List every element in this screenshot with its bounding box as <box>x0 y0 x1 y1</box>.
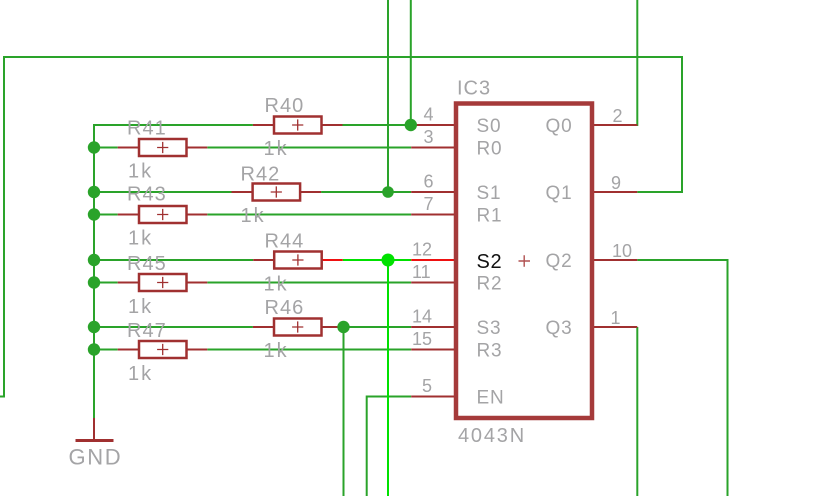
pin stub R2 pin 11 <box>411 282 456 284</box>
ground GND <box>69 418 123 470</box>
svg-text:9: 9 <box>611 173 621 193</box>
wire S2 net vertical down highlighted <box>387 260 389 496</box>
wire R0 row right <box>207 147 411 149</box>
svg-text:1k: 1k <box>128 296 153 318</box>
pin stub R3 pin 15 <box>411 349 456 351</box>
svg-text:1k: 1k <box>128 161 153 183</box>
svg-text:Q2: Q2 <box>546 251 573 272</box>
resistor R43 <box>118 184 208 250</box>
resistor R47 <box>118 320 208 385</box>
wire R3 row right <box>207 349 411 351</box>
wire S2 row left <box>94 259 253 261</box>
svg-text:EN: EN <box>477 388 505 409</box>
wire S3 net vertical down <box>343 327 345 496</box>
junction S2 node highlighted <box>382 254 395 267</box>
wire S1 row right <box>321 191 411 193</box>
wire Q0 vertical <box>636 0 638 126</box>
wire Q1 vertical <box>681 56 683 193</box>
resistor R40 <box>253 95 343 160</box>
svg-text:1k: 1k <box>241 205 266 227</box>
junction S3 node <box>337 321 349 333</box>
svg-text:10: 10 <box>612 241 632 261</box>
junction S3 bus <box>88 321 100 333</box>
pin stub S2 pin 12 highlighted <box>411 259 456 261</box>
svg-text:7: 7 <box>424 194 434 214</box>
pin stub R0 pin 3 <box>411 147 456 149</box>
wire vertical to S1 junction <box>387 0 389 192</box>
svg-text:R0: R0 <box>477 139 503 160</box>
junction S1 node <box>382 186 394 198</box>
svg-text:6: 6 <box>424 172 434 192</box>
IC3 origin cross <box>519 255 531 267</box>
svg-text:4: 4 <box>424 105 434 125</box>
svg-text:R3: R3 <box>477 341 503 362</box>
wire R2 row right <box>207 282 411 284</box>
wire S0 row right <box>343 124 411 126</box>
resistor R46 <box>253 297 343 362</box>
wire Q3 vertical <box>636 327 638 496</box>
svg-text:R2: R2 <box>477 274 503 295</box>
svg-text:1: 1 <box>611 308 621 328</box>
wire left exit stub <box>0 396 5 398</box>
svg-text:1k: 1k <box>264 138 289 160</box>
svg-text:R45: R45 <box>127 253 167 275</box>
svg-text:15: 15 <box>412 329 432 349</box>
wire left vertical net <box>3 56 5 397</box>
svg-text:R43: R43 <box>127 184 167 206</box>
wire Q2 vertical <box>727 259 729 496</box>
svg-text:2: 2 <box>613 106 623 126</box>
svg-text:R46: R46 <box>265 297 305 319</box>
svg-text:GND: GND <box>69 445 123 470</box>
pin stub EN pin 5 <box>411 396 456 398</box>
svg-text:12: 12 <box>412 240 432 260</box>
resistor R44 <box>253 231 343 296</box>
resistor R45 <box>118 253 208 318</box>
junction S1 bus <box>88 186 100 198</box>
IC U1 IC3 4043N body <box>456 104 592 419</box>
resistor R41 <box>118 118 208 183</box>
svg-text:1k: 1k <box>264 340 289 362</box>
wire R0 row left <box>94 147 118 149</box>
pin stub R1 pin 7 <box>411 214 456 216</box>
svg-text:S1: S1 <box>477 183 502 204</box>
svg-text:Q0: Q0 <box>546 116 573 137</box>
pin stub Q0 pin 2 <box>593 124 638 126</box>
pin stub S1 pin 6 <box>411 191 456 193</box>
wire EN vertical down <box>366 396 368 496</box>
wire R3 row left <box>94 349 118 351</box>
wire top horizontal net <box>3 56 682 58</box>
svg-text:14: 14 <box>412 307 432 327</box>
svg-text:S0: S0 <box>477 116 502 137</box>
wire S1 row left <box>94 191 232 193</box>
junction R3 bus <box>88 343 100 355</box>
resistor R42 <box>232 164 322 228</box>
junction R2 bus <box>88 276 100 288</box>
svg-text:R40: R40 <box>265 95 305 117</box>
wire S3 row left <box>94 326 253 328</box>
svg-text:3: 3 <box>424 127 434 147</box>
svg-text:Q1: Q1 <box>546 183 573 204</box>
wire S0 row left <box>93 124 253 126</box>
svg-text:11: 11 <box>412 262 431 282</box>
junction S2 bus <box>88 254 100 266</box>
pin stub Q1 pin 9 <box>593 191 638 193</box>
wire R2 row left <box>94 282 118 284</box>
svg-text:S2: S2 <box>477 251 503 273</box>
wire GND bus vertical <box>93 124 95 419</box>
wire S3 row right <box>343 326 412 328</box>
wire S2 row right highlighted <box>343 259 411 261</box>
svg-text:S3: S3 <box>477 318 502 339</box>
junction S0 node <box>405 119 417 131</box>
pin stub S3 pin 14 <box>411 326 456 328</box>
svg-text:R47: R47 <box>127 320 167 342</box>
svg-text:R41: R41 <box>127 118 167 140</box>
wire EN horizontal <box>367 396 412 398</box>
pin stub Q2 pin 10 <box>593 259 638 261</box>
svg-text:1k: 1k <box>264 274 289 296</box>
svg-text:1k: 1k <box>128 363 153 385</box>
svg-text:R42: R42 <box>241 164 281 186</box>
wire R1 row right <box>207 214 411 216</box>
svg-text:IC3: IC3 <box>457 78 491 100</box>
svg-text:1k: 1k <box>128 228 153 250</box>
pin stub Q3 pin 1 <box>593 326 638 328</box>
svg-text:R1: R1 <box>477 206 503 227</box>
wire Q1 horizontal <box>637 191 682 193</box>
wire R1 row left <box>94 214 118 216</box>
pin stub S0 pin 4 <box>411 124 456 126</box>
svg-text:4043N: 4043N <box>458 425 526 447</box>
svg-text:R44: R44 <box>265 231 305 253</box>
junction R1 bus <box>88 208 100 220</box>
wire Q2 horizontal <box>637 259 727 261</box>
junction R0 bus <box>88 141 100 153</box>
wire vertical to S0 junction <box>410 0 412 125</box>
svg-text:5: 5 <box>422 376 432 396</box>
svg-text:Q3: Q3 <box>546 318 573 339</box>
